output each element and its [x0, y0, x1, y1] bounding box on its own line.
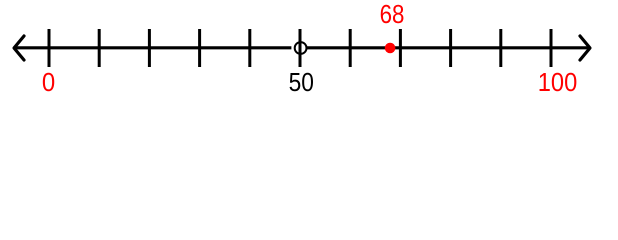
svg-text:100: 100: [538, 69, 578, 97]
svg-text:50: 50: [289, 69, 314, 97]
svg-text:0: 0: [42, 69, 55, 97]
svg-text:68: 68: [380, 1, 405, 29]
